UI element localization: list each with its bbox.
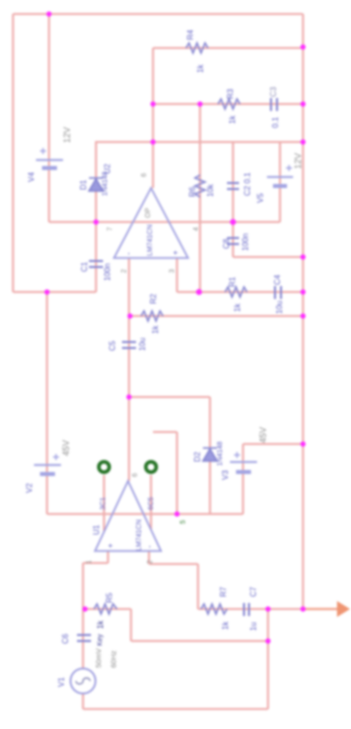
wire top border: [13, 13, 303, 15]
svg-text:1k: 1k: [221, 621, 230, 630]
node top-left: [46, 11, 51, 16]
wire U1 input right jog: [149, 563, 198, 565]
diode D1: [89, 178, 103, 191]
svg-text:3: 3: [169, 269, 176, 273]
svg-text:C6: C6: [61, 633, 70, 644]
svg-text:12V: 12V: [293, 153, 303, 169]
wire null stub vertical: [176, 432, 178, 514]
wire U1 input left pin: [107, 551, 109, 563]
svg-text:10u: 10u: [275, 301, 284, 314]
resistor R5: [94, 604, 117, 614]
resistor R2: [141, 311, 163, 321]
svg-text:6: 6: [141, 173, 148, 177]
svg-text:C8: C8: [222, 238, 231, 249]
capacitor C6: [77, 635, 91, 641]
svg-text:R6: R6: [188, 186, 197, 197]
wire through U1 body: [112, 513, 144, 515]
svg-text:1k: 1k: [96, 620, 105, 629]
node out-col row2: [150, 101, 155, 106]
wire C2 row out: [233, 256, 303, 258]
battery V4: [36, 148, 63, 168]
wire bottom return riser: [267, 641, 269, 709]
resistor R6: [195, 175, 205, 197]
wire diode column: [95, 141, 97, 292]
wire right rail: [302, 14, 304, 609]
node rail R1: [300, 289, 305, 294]
wire R2 row: [130, 315, 303, 317]
svg-text:+: +: [171, 250, 180, 255]
capacitor C2: [227, 183, 239, 189]
node out-col mid: [150, 139, 155, 144]
svg-text:2: 2: [147, 560, 154, 564]
wire V5 column: [279, 142, 281, 222]
svg-text:V1: V1: [57, 677, 66, 687]
resistor R1: [225, 287, 247, 297]
wire R7 column: [197, 564, 199, 609]
capacitor C5: [122, 342, 136, 348]
svg-text:D1: D1: [79, 179, 88, 190]
wire V2 column: [46, 292, 48, 514]
wire V4 column: [48, 14, 50, 222]
svg-text:R5: R5: [105, 592, 114, 603]
svg-text:OP: OP: [145, 208, 152, 218]
svg-text:4: 4: [193, 227, 200, 231]
svg-text:C5: C5: [108, 340, 117, 351]
wire U1 input right pin: [148, 551, 150, 564]
op-amp U1: [86, 473, 187, 564]
wire null stub horizontal: [153, 431, 177, 433]
svg-text:6: 6: [132, 473, 139, 477]
wire U1 output row: [129, 396, 210, 398]
wire left border: [12, 14, 14, 292]
capacitor C4: [275, 286, 281, 299]
node R2 left: [127, 313, 132, 318]
wire bottom return: [83, 708, 268, 710]
wire output column upper: [152, 48, 154, 188]
svg-text:Key: Key: [97, 633, 104, 646]
svg-text:10k: 10k: [206, 183, 215, 197]
battery V3: [230, 452, 257, 472]
svg-text:10u: 10u: [138, 338, 147, 351]
node C2 mid: [230, 219, 236, 225]
node R1 left: [196, 289, 202, 295]
node rail row2: [300, 101, 305, 106]
svg-text:50mV: 50mV: [94, 648, 103, 668]
wire riser to output row: [267, 609, 269, 641]
svg-text:45V: 45V: [258, 427, 268, 443]
wire op-amp pin4 row: [169, 221, 280, 223]
svg-text:R2: R2: [149, 293, 158, 304]
node output riser top: [265, 606, 270, 611]
node rail C2: [300, 254, 305, 259]
source V1: [71, 669, 96, 694]
node pin7 junction: [93, 219, 98, 224]
svg-text:1N4148: 1N4148: [102, 171, 109, 196]
capacitor C1: [89, 261, 103, 267]
output arrow: [303, 601, 350, 617]
wire V3 column: [242, 444, 244, 514]
svg-text:C2 0.1: C2 0.1: [243, 172, 252, 196]
wire op-amp U2 left pin down: [128, 258, 130, 481]
node U1 pin4: [174, 511, 179, 516]
svg-text:2: 2: [121, 269, 128, 273]
wire V1 bottom: [82, 694, 84, 709]
svg-text:5: 5: [180, 520, 187, 524]
wire bottom-left horizontal: [13, 291, 96, 293]
node output riser bottom: [265, 638, 270, 643]
svg-text:1: 1: [86, 560, 93, 564]
resistor R4 top: [186, 43, 208, 53]
svg-text:V2: V2: [25, 483, 34, 493]
wire left probe column: [103, 475, 105, 531]
capacitor C7: [244, 603, 249, 616]
svg-text:LM741CN: LM741CN: [147, 224, 154, 256]
svg-text:6C5: 6C5: [148, 497, 155, 510]
svg-text:V5: V5: [256, 193, 265, 203]
op-amp U2: [103, 163, 200, 273]
svg-text:C4: C4: [273, 274, 282, 285]
svg-text:1k: 1k: [228, 115, 237, 124]
node rail mid: [300, 139, 305, 144]
svg-text:0.1: 0.1: [271, 116, 280, 128]
svg-text:U1: U1: [92, 524, 101, 535]
svg-text:1u: 1u: [249, 622, 258, 631]
wire V1 column: [82, 563, 84, 668]
svg-text:1k: 1k: [196, 64, 205, 73]
node feedback top: [300, 44, 305, 49]
wire R1 row: [199, 291, 303, 293]
svg-text:R3: R3: [226, 88, 235, 99]
wire V3 top row: [243, 443, 303, 445]
resistor R3: [218, 99, 240, 109]
wire V2 to op-amp U1: [47, 513, 112, 515]
capacitor C8: [227, 238, 239, 244]
probe connector left: [99, 462, 109, 472]
svg-text:1k: 1k: [151, 325, 160, 334]
svg-text:C3: C3: [269, 86, 278, 97]
wire R6 column: [199, 104, 201, 292]
wire mid rail row: [96, 141, 303, 143]
node rail V3: [300, 441, 305, 446]
svg-text:45V: 45V: [61, 440, 71, 456]
svg-text:60Hz: 60Hz: [109, 650, 118, 668]
svg-text:LM741CN: LM741CN: [136, 519, 143, 551]
svg-text:+: +: [106, 543, 115, 548]
wire R5 row: [83, 608, 131, 610]
wire output RC row: [198, 608, 303, 610]
wire top feedback row: [153, 47, 303, 49]
capacitor C3: [271, 98, 277, 111]
svg-text:R1: R1: [228, 276, 237, 287]
node R5 left: [82, 606, 87, 611]
wire C2 column: [232, 142, 234, 257]
battery V2: [34, 454, 61, 474]
svg-text:-: -: [145, 545, 154, 548]
node ground row left: [44, 289, 49, 294]
wire feedback bottom row: [131, 640, 268, 642]
wire second row: [153, 103, 303, 105]
svg-text:V3: V3: [221, 470, 230, 480]
svg-text:-: -: [124, 252, 133, 255]
svg-text:R4: R4: [186, 29, 195, 40]
svg-text:3C1: 3C1: [100, 497, 107, 510]
svg-text:100n: 100n: [241, 233, 250, 251]
wire U1 right pin row: [144, 513, 243, 515]
svg-text:R7: R7: [219, 586, 228, 597]
wire op-amp U2 right pin down: [176, 258, 178, 292]
svg-text:12V: 12V: [62, 127, 72, 143]
diode D2: [203, 448, 217, 461]
svg-text:U2: U2: [103, 163, 112, 174]
svg-text:D2: D2: [193, 451, 202, 462]
battery V5: [267, 165, 293, 186]
wire D2 column: [209, 397, 211, 514]
wire R5 corner down: [130, 609, 132, 641]
svg-text:V4: V4: [27, 172, 36, 182]
svg-text:7: 7: [107, 227, 114, 231]
svg-text:1k: 1k: [233, 303, 242, 312]
svg-text:C7: C7: [249, 586, 258, 597]
resistor R7: [201, 604, 227, 614]
node rail R2: [300, 313, 305, 318]
wire U1 input left jog: [83, 562, 108, 564]
node U1 out: [126, 394, 131, 399]
probe connector right: [146, 462, 156, 472]
svg-text:1N4148: 1N4148: [217, 441, 224, 466]
svg-text:C1: C1: [80, 261, 89, 272]
node rail bottom: [300, 606, 305, 611]
node R6 top: [197, 101, 202, 106]
wire V4 to op-amp pin7: [49, 221, 134, 223]
wire right pin to R1 row: [177, 291, 199, 293]
wire pin7-pin4 through body: [134, 221, 169, 223]
wire right probe column: [150, 475, 152, 529]
svg-text:100n: 100n: [103, 263, 112, 281]
